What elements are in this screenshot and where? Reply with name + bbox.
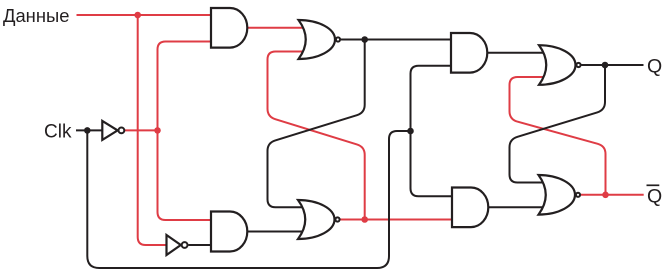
wire: cross-coupling Q node down to NOR G8 top input (black diagonal) (510, 65, 606, 183)
NOR gate G4 (master latch, bottom) (298, 200, 335, 239)
wire: Clk input lead (76, 129, 102, 131)
inverter U1 bubble (119, 127, 125, 133)
svg-text:Данные: Данные (3, 5, 69, 26)
svg-text:Clk: Clk (44, 122, 72, 143)
wire: AND G1 output to NOR G3 top input (red) (247, 27, 305, 29)
junction: J3 Clk distribution node (407, 128, 414, 135)
wire: NOR G8 output to Q-bar terminal (red) (581, 194, 644, 196)
wire: Clk feedback around bottom up to junction J3 (87, 130, 410, 268)
junction: NOT-Clk node (154, 127, 161, 134)
AND gate G5 (slave gating, top) (451, 33, 487, 73)
wire: junction J3 down to AND G6 upper input (411, 131, 453, 196)
junction: Q-bar node (602, 192, 609, 199)
NOR G7 bubble (576, 63, 580, 67)
inverter U2 (Данные) (167, 235, 181, 255)
NOR gate G7 (slave latch, Q) (539, 45, 576, 85)
wire: NOR G4 output to AND G6 lower input (red) (341, 219, 453, 221)
NOR G4 bubble (335, 217, 339, 221)
label: Q-bar overbar (647, 184, 660, 186)
junction: Clk node (84, 127, 91, 134)
wire: AND G2 output to NOR G4 lower input (247, 231, 305, 233)
wire: cross-coupling Q-bar node up to NOR G7 lower input (red diagonal) (510, 77, 606, 195)
wire: inverter U2 output to AND G2 lower input (188, 244, 211, 246)
junction: Данные node (134, 12, 141, 19)
AND gate G1 (Данные · NOT Clk) (211, 8, 247, 48)
wire: cross-coupling NOR G4 output up to NOR G3 lower input (red diagonal) (268, 52, 365, 220)
wire: Данные input lead (red) (77, 14, 212, 16)
wire: AND G5 output to NOR G7 top input (487, 52, 546, 54)
wire: AND G6 output to NOR G8 lower input (488, 206, 546, 208)
wire: inverter U1 output (NOT Clk, red) (124, 129, 157, 131)
AND gate G2 (NOT Данные · NOT Clk) (211, 212, 247, 252)
NOR G8 bubble (576, 193, 580, 197)
inverter U2 bubble (182, 242, 188, 248)
NOR gate G8 (slave latch, Q-bar) (539, 175, 576, 215)
wire: NOR G7 output to Q terminal (581, 64, 643, 66)
svg-text:Q: Q (647, 186, 662, 208)
junction: NOR G4 output node (361, 216, 368, 223)
AND gate G6 (slave gating, bottom) (452, 188, 488, 228)
wire: Данные branch down to inverter U2 input (red) (138, 15, 167, 245)
wire: NOT-Clk vertical bus feeding AND G1 lower input and AND G2 upper input (red) (158, 42, 212, 221)
junction: Q node (602, 62, 609, 69)
wire: NOR G3 output to AND G5 top input (341, 39, 451, 41)
NOR G3 bubble (336, 37, 340, 41)
svg-text:Q: Q (647, 55, 662, 77)
wire: junction J3 up to AND G5 lower input (411, 66, 452, 131)
junction: NOR G3 output node (361, 36, 368, 43)
wire: cross-coupling NOR G3 output down to NOR G4 top input (black diagonal) (268, 40, 365, 208)
NOR gate G3 (master latch, top) (299, 20, 336, 59)
inverter U1 (Clk) (102, 121, 117, 140)
